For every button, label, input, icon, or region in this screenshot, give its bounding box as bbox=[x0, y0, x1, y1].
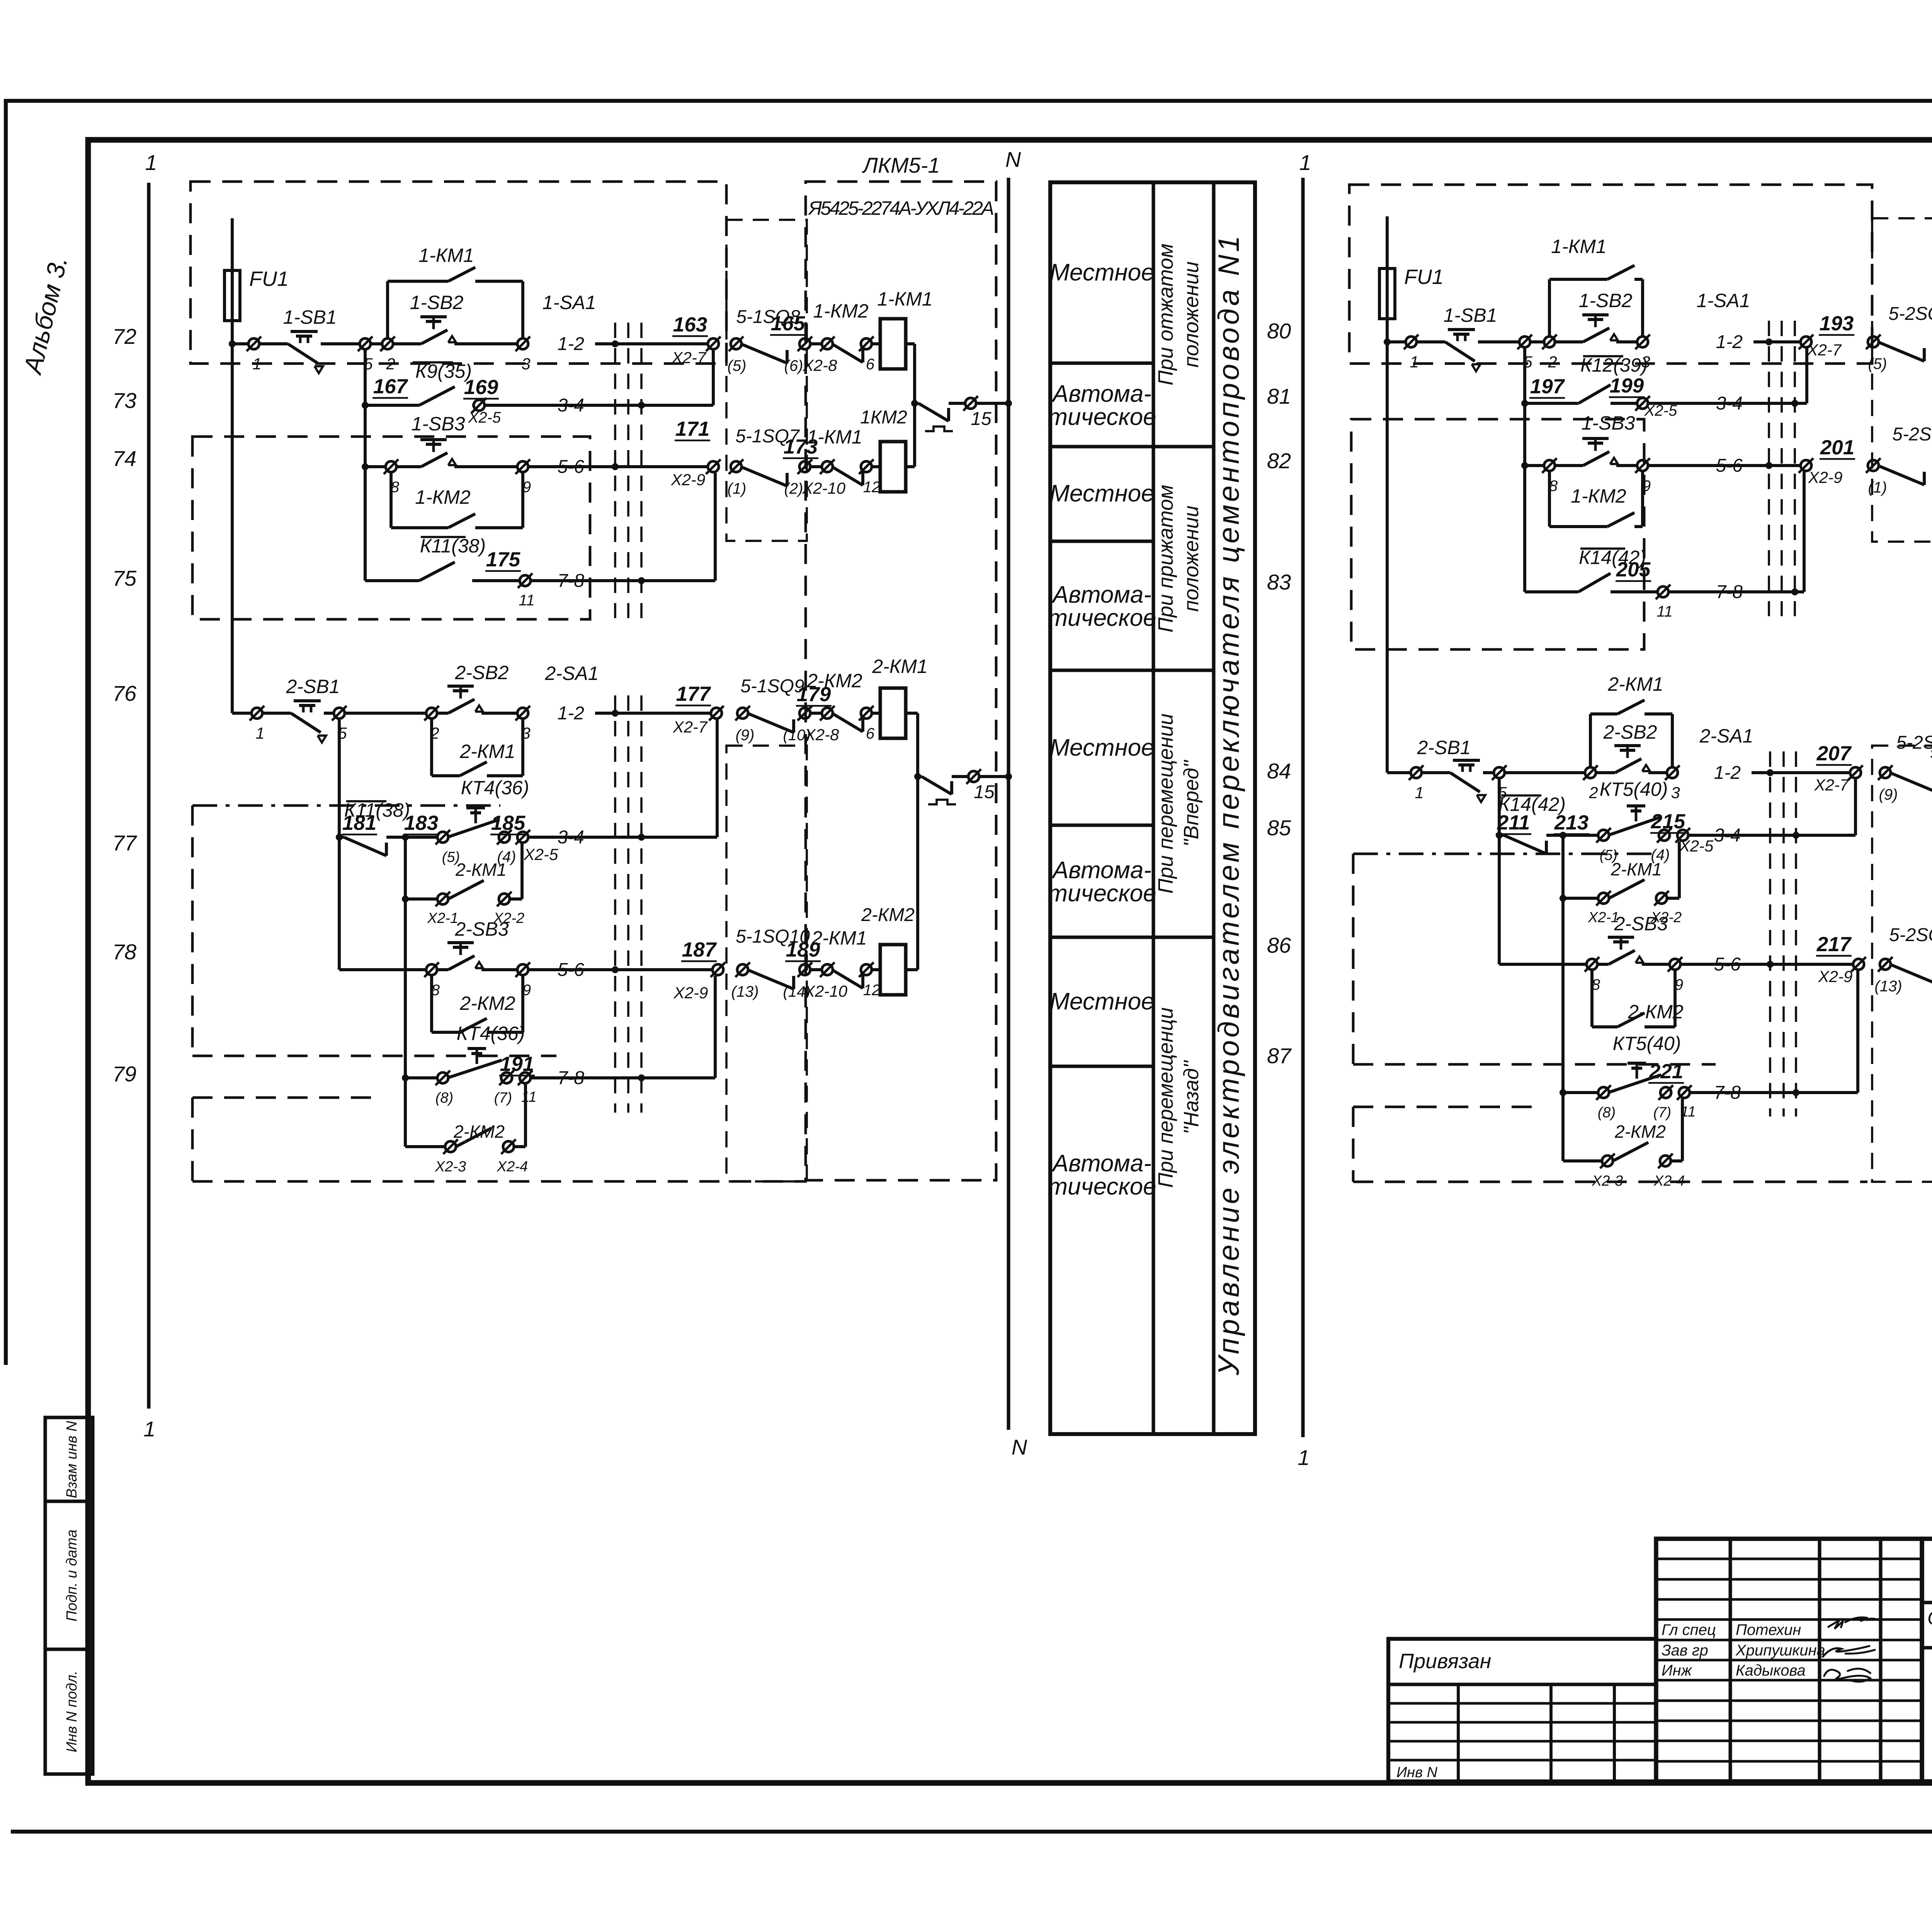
thermal contact 15 (circuit 1.2) bbox=[918, 775, 922, 778]
svg-text:2-SB2: 2-SB2 bbox=[1603, 721, 1657, 743]
contact 2-КМ1 (self-hold bypass of SB2) bbox=[430, 719, 433, 776]
relay contact К11(38) row 7-8 bbox=[364, 467, 367, 581]
svg-text:11: 11 bbox=[521, 1089, 536, 1105]
svg-text:1-SB1: 1-SB1 bbox=[283, 306, 337, 328]
terminal 2 bbox=[345, 712, 426, 715]
svg-text:Х2-5: Х2-5 bbox=[468, 409, 501, 426]
svg-text:Местное: Местное bbox=[1049, 988, 1154, 1015]
relay contact К11(38) row 3-4 bbox=[336, 834, 343, 841]
svg-text:85: 85 bbox=[1267, 816, 1291, 840]
svg-text:Автома-: Автома- bbox=[1051, 857, 1151, 884]
enclosure dashed lines (middle) bbox=[1353, 853, 1658, 855]
svg-text:11: 11 bbox=[1656, 603, 1673, 620]
node 1 (supply bus L, circuit 2) bbox=[1301, 178, 1304, 1437]
coil 2-КМ1 bbox=[872, 712, 880, 715]
svg-text:1-КМ1: 1-КМ1 bbox=[1551, 236, 1606, 257]
svg-text:1-SА1: 1-SА1 bbox=[1697, 290, 1750, 311]
svg-text:2-SB2: 2-SB2 bbox=[455, 662, 509, 683]
wire up to X2-9 bbox=[714, 473, 717, 581]
wire row 2-1-2 left segment bbox=[1387, 771, 1411, 774]
svg-text:3-4: 3-4 bbox=[558, 827, 584, 848]
svg-text:2-КМ1: 2-КМ1 bbox=[872, 656, 927, 677]
enclosure dashed box LKM5-1 bbox=[806, 182, 996, 1180]
limit-switch unit dashed box (lower) bbox=[1872, 746, 1932, 1182]
svg-text:197: 197 bbox=[1530, 375, 1565, 398]
svg-text:181: 181 bbox=[342, 812, 376, 834]
fuse FU1 (circuit 1) bbox=[231, 218, 234, 270]
svg-text:Х2-10: Х2-10 bbox=[804, 982, 848, 1000]
terminal X2-10 bbox=[810, 968, 822, 971]
svg-text:73: 73 bbox=[112, 388, 136, 413]
svg-text:Хрипушкина: Хрипушкина bbox=[1735, 1642, 1825, 1659]
limit-switch unit dashed box (lower) bbox=[726, 746, 807, 1181]
contact 2-КМ2 auxiliary (X2-3/X2-4) bbox=[405, 1145, 445, 1148]
svg-text:163: 163 bbox=[673, 313, 707, 336]
svg-text:211: 211 bbox=[1497, 811, 1530, 834]
terminal 5 bbox=[360, 338, 371, 349]
pushbutton 1-SB3 (NO) row 5-6 bbox=[1521, 462, 1528, 469]
limit switch 5-2SQ9 bbox=[1890, 773, 1932, 792]
svg-text:1: 1 bbox=[1299, 150, 1311, 175]
svg-text:165: 165 bbox=[771, 312, 806, 335]
svg-text:7-8: 7-8 bbox=[558, 571, 585, 591]
contact 2-КМ1 (self-hold bypass of SB2) bbox=[1589, 714, 1592, 767]
svg-text:FU1: FU1 bbox=[1404, 265, 1444, 289]
svg-text:FU1: FU1 bbox=[249, 267, 289, 291]
svg-text:5-2SQ7: 5-2SQ7 bbox=[1892, 424, 1932, 445]
svg-text:2-SB1: 2-SB1 bbox=[286, 676, 340, 697]
svg-text:тическое: тическое bbox=[1048, 605, 1156, 631]
svg-text:положении: положении bbox=[1180, 506, 1203, 612]
wire branch vertical from terminal 5 bbox=[338, 719, 341, 970]
wire up to X2-7 bbox=[716, 719, 719, 837]
contact 1-КМ1 (self-hold bypass of SB2) bbox=[1548, 279, 1551, 336]
svg-text:Х2-9: Х2-9 bbox=[671, 471, 706, 489]
terminal 5 bbox=[1494, 767, 1505, 778]
svg-text:7-8: 7-8 bbox=[1714, 1083, 1741, 1103]
svg-text:Гл спец: Гл спец bbox=[1662, 1621, 1716, 1638]
svg-text:1-2: 1-2 bbox=[558, 703, 584, 724]
svg-text:(8): (8) bbox=[435, 1090, 453, 1106]
svg-text:1-2: 1-2 bbox=[558, 334, 584, 354]
enclosure dashed box (selector box) bbox=[1351, 419, 1644, 649]
terminal X2-10 bbox=[810, 465, 822, 468]
svg-text:1-КМ2: 1-КМ2 bbox=[813, 300, 869, 322]
svg-text:положении: положении bbox=[1180, 262, 1203, 368]
svg-text:2-SА1: 2-SА1 bbox=[1699, 725, 1753, 747]
coil 2-КМ2 bbox=[872, 968, 880, 971]
contact 1-КМ2 (self-hold bypass of SB3) bbox=[1548, 471, 1551, 527]
relay contact КТ4(36) row 7-8 bbox=[402, 1074, 409, 1081]
enclosure dashed box (selector box) bbox=[192, 437, 590, 619]
svg-text:3: 3 bbox=[1671, 783, 1680, 802]
svg-text:83: 83 bbox=[1267, 570, 1291, 594]
svg-text:Взам инв N: Взам инв N bbox=[64, 1421, 80, 1498]
terminal X2-9 / wire 171 bbox=[708, 461, 719, 472]
table frame (mode table) bbox=[1050, 182, 1255, 1434]
relay contact К12(39) row 3-4 bbox=[1521, 400, 1528, 407]
svg-text:К12(39): К12(39) bbox=[1580, 354, 1648, 376]
svg-text:1: 1 bbox=[1410, 353, 1418, 371]
terminal X2-7 / wire 163 bbox=[708, 338, 719, 349]
svg-text:(8): (8) bbox=[1598, 1105, 1616, 1121]
svg-text:193: 193 bbox=[1820, 312, 1854, 335]
svg-text:1-2: 1-2 bbox=[1716, 332, 1743, 352]
svg-text:КТ5(40): КТ5(40) bbox=[1613, 1033, 1681, 1054]
svg-text:6: 6 bbox=[866, 725, 875, 742]
svg-text:175: 175 bbox=[486, 548, 521, 571]
svg-text:77: 77 bbox=[112, 831, 137, 855]
fuse FU1 (circuit 2) bbox=[1386, 216, 1389, 269]
svg-text:При отжатом: При отжатом bbox=[1154, 243, 1177, 385]
contact 2-КМ2 (self-hold bypass of SB3) bbox=[430, 975, 433, 1032]
svg-text:тическое: тическое bbox=[1048, 880, 1156, 907]
terminal (1) bbox=[1868, 460, 1879, 471]
svg-text:Х2-1: Х2-1 bbox=[427, 910, 458, 926]
svg-text:N: N bbox=[1005, 147, 1021, 172]
svg-text:Х2-5: Х2-5 bbox=[524, 845, 558, 863]
pushbutton 1-SB1 (NC) bbox=[259, 342, 288, 345]
svg-text:При перемещенци: При перемещенци bbox=[1154, 1007, 1177, 1188]
terminal 3 bbox=[1637, 336, 1648, 347]
enclosure dashed lines (lower) bbox=[1353, 1106, 1539, 1108]
limit switch 5-1SQ10 bbox=[747, 970, 794, 989]
svg-text:Привязан: Привязан bbox=[1399, 1650, 1491, 1673]
wire row 2-1-2 left segment bbox=[232, 712, 252, 715]
pushbutton 2-SB2 (NO) bbox=[1596, 771, 1615, 774]
svg-text:1-SА1: 1-SА1 bbox=[543, 292, 596, 313]
terminal (13) bbox=[1880, 959, 1891, 970]
svg-text:К11(38): К11(38) bbox=[420, 535, 486, 557]
svg-text:7-8: 7-8 bbox=[1716, 582, 1743, 602]
svg-text:Местное: Местное bbox=[1049, 480, 1154, 507]
svg-text:15: 15 bbox=[971, 409, 992, 429]
svg-text:78: 78 bbox=[112, 940, 136, 964]
svg-text:1-SB3: 1-SB3 bbox=[412, 413, 465, 435]
limit switch 5-2SQ10 bbox=[1890, 964, 1932, 984]
svg-text:тическое: тическое bbox=[1048, 404, 1156, 430]
pushbutton 2-SB1 (NC) bbox=[262, 712, 291, 715]
svg-text:1-КМ2: 1-КМ2 bbox=[415, 486, 471, 508]
terminal 3 bbox=[517, 338, 528, 349]
terminal 1 (2-SB1) bbox=[252, 708, 262, 719]
svg-text:Автома-: Автома- bbox=[1051, 381, 1151, 407]
svg-text:Автома-: Автома- bbox=[1051, 581, 1151, 608]
svg-text:Автома-: Автома- bbox=[1051, 1150, 1151, 1177]
terminal X2-9 / wire 187 bbox=[713, 964, 723, 975]
time relay contact КТ4(36) row 3-4 bbox=[437, 832, 448, 843]
limit switch 5-1SQ7 bbox=[741, 467, 787, 486]
terminal X2-8 bbox=[810, 712, 822, 715]
terminal X2-9 / wire 201 bbox=[1801, 460, 1811, 471]
limit switch 5-1SQ8 bbox=[741, 344, 787, 363]
svg-text:81: 81 bbox=[1267, 384, 1291, 408]
terminal 1 (1-SB1) bbox=[1406, 336, 1417, 347]
svg-text:2-SB3: 2-SB3 bbox=[455, 918, 509, 940]
contact 1-КМ2 (self-hold bypass of SB3) bbox=[389, 472, 393, 528]
svg-text:2-SА1: 2-SА1 bbox=[545, 663, 599, 684]
svg-text:2-SB3: 2-SB3 bbox=[1614, 913, 1668, 935]
contact 2-КМ1 auxiliary (X2-1/X2-2) bbox=[1560, 895, 1566, 902]
svg-text:3-4: 3-4 bbox=[1714, 825, 1741, 846]
relay contact К9(35) row 3-4 bbox=[362, 402, 369, 409]
limit switch 5-2SQ8 bbox=[1878, 342, 1924, 361]
svg-text:1-SB2: 1-SB2 bbox=[1579, 290, 1633, 311]
cable (dashed cores) bbox=[1768, 321, 1770, 616]
terminal (9) bbox=[1880, 767, 1891, 778]
terminal X2-9 / wire 217 bbox=[1853, 959, 1864, 970]
time relay contact КТ5(40) row 3-4 bbox=[1598, 830, 1609, 841]
table col1 row lines bbox=[1050, 361, 1153, 365]
svg-text:КТ5(40): КТ5(40) bbox=[1600, 778, 1668, 800]
svg-text:Подп. и дата: Подп. и дата bbox=[64, 1530, 80, 1621]
terminal X2-7 / wire 207 bbox=[1850, 767, 1861, 778]
svg-text:183: 183 bbox=[404, 812, 438, 834]
svg-text:Инв N подл.: Инв N подл. bbox=[64, 1671, 80, 1752]
terminal X2-7 / wire 193 bbox=[1801, 336, 1811, 347]
svg-text:Склад цемента прирельсовый вме: Склад цемента прирельсовый вместимостью bbox=[1927, 1607, 1932, 1629]
contact 2-КМ2 (NC interlock) bbox=[832, 713, 863, 732]
enclosure dashed box (push-button station upper) bbox=[1349, 185, 1872, 364]
svg-text:1: 1 bbox=[255, 724, 264, 742]
svg-text:84: 84 bbox=[1267, 759, 1291, 783]
terminal 12 bbox=[861, 461, 872, 472]
wire row 1-1-2 left segment bbox=[229, 340, 236, 347]
svg-text:"Назад": "Назад" bbox=[1180, 1060, 1203, 1134]
wire coil junction to N bbox=[913, 344, 916, 467]
relay contact К14(42) row 7-8 bbox=[1523, 466, 1526, 592]
svg-text:Х2-7: Х2-7 bbox=[1814, 776, 1849, 794]
terminal (13) bbox=[737, 964, 748, 975]
svg-text:7-8: 7-8 bbox=[558, 1068, 585, 1088]
terminal X2-8 bbox=[810, 342, 822, 345]
terminal 2 bbox=[1505, 771, 1585, 774]
contact 1-КМ1 (NC interlock) bbox=[832, 467, 863, 485]
svg-text:Х2-7: Х2-7 bbox=[673, 718, 708, 736]
linked box (Привязан) bbox=[1388, 1639, 1656, 1781]
svg-text:Х2-9: Х2-9 bbox=[1818, 967, 1853, 986]
terminal 5 bbox=[1519, 336, 1530, 347]
svg-text:177: 177 bbox=[676, 683, 711, 705]
table col2 row lines bbox=[1153, 445, 1214, 448]
wire branch vertical (lower) bbox=[404, 837, 407, 1147]
svg-text:76: 76 bbox=[112, 681, 137, 705]
svg-text:Инв N: Инв N bbox=[1396, 1764, 1437, 1781]
wire branch vertical from terminal 5 bbox=[1498, 778, 1501, 964]
svg-text:1-КМ1: 1-КМ1 bbox=[418, 245, 474, 266]
svg-text:(7): (7) bbox=[1653, 1105, 1671, 1121]
svg-text:Х2-8: Х2-8 bbox=[804, 726, 839, 744]
title block main box bbox=[1922, 1539, 1932, 1781]
svg-text:"Вперед": "Вперед" bbox=[1180, 759, 1203, 846]
terminal (5) bbox=[731, 338, 742, 349]
cable (dashed cores) bbox=[1769, 751, 1771, 1117]
limit switch 5-1SQ9 bbox=[747, 713, 794, 732]
coil 1-КМ2 bbox=[872, 465, 880, 468]
svg-text:5-2SQ9: 5-2SQ9 bbox=[1896, 732, 1932, 753]
wire up to X2-9 bbox=[714, 976, 717, 1078]
svg-text:Х2-10: Х2-10 bbox=[802, 479, 846, 497]
svg-text:ЛКМ5-1: ЛКМ5-1 bbox=[862, 153, 940, 177]
pushbutton 1-SB3 (NO) row 5-6 bbox=[362, 463, 369, 470]
svg-text:Инж: Инж bbox=[1662, 1662, 1692, 1679]
contact 2-КМ1 (NC interlock) bbox=[832, 970, 863, 988]
terminal (9) bbox=[737, 708, 748, 719]
svg-text:199: 199 bbox=[1610, 374, 1644, 397]
svg-text:Х2-5: Х2-5 bbox=[1679, 837, 1714, 855]
svg-text:1-КМ2: 1-КМ2 bbox=[1571, 485, 1626, 507]
svg-text:169: 169 bbox=[464, 376, 498, 399]
contact 2-КМ2 auxiliary (X2-3/X2-4) bbox=[1563, 1159, 1602, 1162]
svg-text:207: 207 bbox=[1816, 742, 1852, 765]
svg-text:КТ4(36): КТ4(36) bbox=[457, 1023, 525, 1044]
svg-text:2-КМ1: 2-КМ1 bbox=[455, 860, 507, 880]
contact 1-КМ1 (self-hold bypass of SB2) bbox=[386, 281, 389, 338]
svg-text:167: 167 bbox=[373, 375, 408, 398]
pushbutton 1-SB1 (NC) bbox=[1417, 340, 1445, 343]
svg-text:1: 1 bbox=[145, 150, 157, 175]
svg-text:6: 6 bbox=[866, 356, 875, 373]
signatures bbox=[1828, 1618, 1877, 1629]
svg-text:2-КМ2: 2-КМ2 bbox=[453, 1122, 505, 1142]
svg-text:15: 15 bbox=[974, 782, 995, 802]
svg-text:75: 75 bbox=[112, 566, 137, 590]
svg-text:(6): (6) bbox=[784, 357, 803, 374]
svg-text:82: 82 bbox=[1267, 449, 1291, 473]
svg-text:1: 1 bbox=[143, 1417, 155, 1441]
wire branch vertical from terminal 5 bbox=[364, 349, 367, 467]
svg-text:2: 2 bbox=[1588, 783, 1598, 802]
title block revision table bbox=[1656, 1539, 1922, 1781]
svg-text:2-КМ2: 2-КМ2 bbox=[1628, 1001, 1684, 1023]
svg-text:тическое: тическое bbox=[1048, 1173, 1156, 1200]
wire up to X2-9 bbox=[1856, 970, 1859, 1093]
svg-text:5-2SQ10: 5-2SQ10 bbox=[1889, 925, 1932, 945]
svg-text:1: 1 bbox=[1415, 783, 1423, 802]
relay contact К14(42) row 3-4 bbox=[1496, 832, 1503, 839]
enclosure dashed lines (lower) bbox=[192, 1096, 378, 1099]
svg-text:(13): (13) bbox=[731, 983, 759, 1000]
svg-text:2-КМ1: 2-КМ1 bbox=[1611, 859, 1662, 879]
contact 2-КМ1 auxiliary (X2-1/X2-2) bbox=[402, 896, 409, 902]
svg-text:(2): (2) bbox=[784, 480, 803, 497]
terminal 2 bbox=[1530, 340, 1544, 343]
svg-text:Местное: Местное bbox=[1049, 734, 1154, 761]
terminal / wire 185 X2-5 bbox=[499, 832, 510, 843]
enclosure dashed box (push-button station upper) bbox=[190, 182, 726, 364]
svg-text:80: 80 bbox=[1267, 319, 1291, 343]
svg-text:(13): (13) bbox=[1874, 978, 1902, 995]
wire branch vertical (lower) bbox=[1561, 835, 1565, 1161]
terminal 6 bbox=[861, 338, 872, 349]
terminal (14) bbox=[799, 964, 810, 975]
wire row 1-1-2 left segment bbox=[1384, 338, 1391, 345]
terminal 3 bbox=[1667, 767, 1678, 778]
contact 2-КМ2 (self-hold bypass of SB3) bbox=[1590, 970, 1594, 1027]
wire up to X2-7 bbox=[1854, 779, 1857, 835]
svg-text:(1): (1) bbox=[1868, 479, 1887, 496]
thermal contact 15 (circuit 1.1) bbox=[915, 402, 918, 405]
svg-text:2-КМ2: 2-КМ2 bbox=[806, 670, 862, 692]
terminal 12 bbox=[861, 964, 872, 975]
pushbutton 2-SB3 (NO) row 5-6 bbox=[1499, 963, 1587, 966]
terminal / wire 215 X2-5 bbox=[1659, 830, 1670, 841]
pushbutton 2-SB3 (NO) row 5-6 bbox=[339, 968, 426, 971]
terminal 1 (2-SB1) bbox=[1411, 767, 1422, 778]
svg-text:1-КМ1: 1-КМ1 bbox=[877, 288, 932, 310]
node N (neutral bus, circuit 1) bbox=[1007, 178, 1010, 1430]
svg-text:Я5425-2274А-УХЛ4-22А: Я5425-2274А-УХЛ4-22А bbox=[808, 197, 994, 219]
terminal / wire 199 X2-5 bbox=[1611, 402, 1637, 405]
svg-text:74: 74 bbox=[112, 446, 136, 471]
svg-text:Зав гр: Зав гр bbox=[1662, 1642, 1708, 1659]
contact 1-КМ2 (NC interlock) bbox=[832, 344, 863, 362]
svg-text:3-4: 3-4 bbox=[1716, 393, 1743, 414]
svg-text:2-КМ2: 2-КМ2 bbox=[861, 905, 915, 925]
terminal (10) bbox=[799, 708, 810, 719]
svg-text:2-КМ1: 2-КМ1 bbox=[811, 927, 867, 949]
svg-text:86: 86 bbox=[1267, 933, 1291, 957]
wire up to X2-9 bbox=[1803, 472, 1806, 592]
svg-text:213: 213 bbox=[1554, 811, 1588, 834]
pushbutton 2-SB1 (NC) bbox=[1422, 771, 1450, 774]
svg-text:Х2-7: Х2-7 bbox=[1807, 341, 1842, 359]
svg-text:(7): (7) bbox=[494, 1090, 512, 1106]
svg-text:2-КМ1: 2-КМ1 bbox=[1607, 673, 1663, 695]
svg-text:217: 217 bbox=[1816, 933, 1852, 956]
limit-switch unit dashed box (upper) bbox=[1872, 218, 1932, 542]
relay contact КТ5(40) row 7-8 bbox=[1560, 1089, 1566, 1096]
limit switch 5-2SQ7 bbox=[1878, 466, 1924, 485]
svg-text:12: 12 bbox=[863, 982, 881, 999]
svg-text:1КМ2: 1КМ2 bbox=[860, 407, 907, 428]
svg-text:2-КМ1: 2-КМ1 bbox=[459, 741, 515, 762]
wire up to X2-7 bbox=[712, 350, 715, 405]
svg-text:1-2: 1-2 bbox=[1714, 763, 1741, 783]
svg-text:(9): (9) bbox=[1879, 786, 1898, 803]
svg-text:Местное: Местное bbox=[1049, 259, 1154, 286]
svg-text:(5): (5) bbox=[728, 357, 747, 374]
svg-text:2: 2 bbox=[1548, 353, 1557, 371]
svg-text:Х2-3: Х2-3 bbox=[435, 1159, 466, 1175]
svg-text:(1): (1) bbox=[728, 480, 747, 497]
svg-text:При прижатом: При прижатом bbox=[1154, 485, 1177, 633]
wire up to X2-7 bbox=[1805, 348, 1808, 403]
svg-text:87: 87 bbox=[1267, 1043, 1292, 1068]
pushbutton 2-SB2 (NO) bbox=[437, 712, 448, 715]
svg-text:1-SB2: 1-SB2 bbox=[410, 292, 464, 313]
coil 1-КМ1 bbox=[872, 342, 880, 345]
svg-text:12: 12 bbox=[863, 479, 881, 496]
svg-text:Х2-9: Х2-9 bbox=[673, 984, 708, 1002]
terminal 5 bbox=[334, 708, 345, 719]
pushbutton 1-SB2 (NO) bbox=[1555, 340, 1583, 343]
svg-text:187: 187 bbox=[682, 938, 717, 961]
svg-text:При перемещении: При перемещении bbox=[1154, 714, 1177, 894]
svg-text:N: N bbox=[1012, 1435, 1027, 1459]
terminal (5) bbox=[1868, 336, 1879, 347]
left margin stamp strip bbox=[45, 1417, 93, 1774]
svg-text:КТ4(36): КТ4(36) bbox=[461, 777, 529, 799]
svg-text:1-КМ1: 1-КМ1 bbox=[807, 426, 862, 448]
svg-text:(9): (9) bbox=[736, 727, 755, 744]
svg-text:Х2-4: Х2-4 bbox=[497, 1159, 528, 1175]
terminal X2-7 / wire 177 bbox=[711, 708, 722, 719]
svg-text:2-КМ2: 2-КМ2 bbox=[1614, 1122, 1666, 1142]
cable (dashed cores) bbox=[614, 695, 616, 1113]
terminal (1) bbox=[731, 461, 742, 472]
svg-text:11: 11 bbox=[519, 592, 535, 609]
